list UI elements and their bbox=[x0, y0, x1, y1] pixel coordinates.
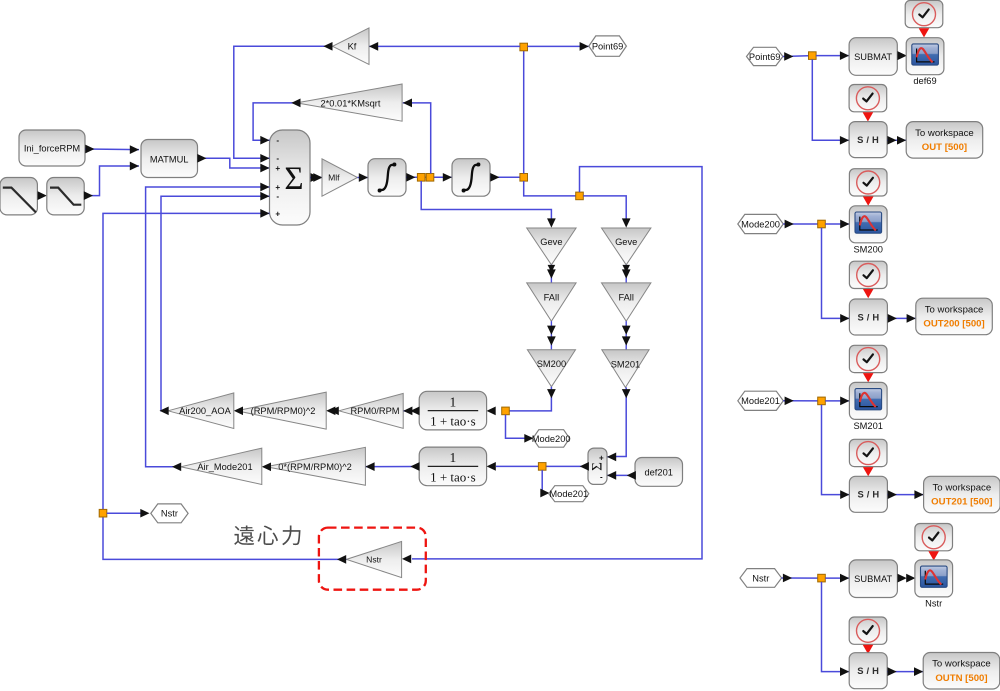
clock above scope SM200 bbox=[849, 169, 887, 196]
junction J3 bbox=[520, 174, 528, 182]
wire S/H to To workspace OUT201 [500] bbox=[887, 494, 923, 496]
svg-text:Σ: Σ bbox=[284, 161, 303, 197]
wire TF2 to 0*(RPM/RPM0)^2 gain bbox=[365, 466, 419, 468]
red arrow clock to S/H Point69 bbox=[863, 112, 874, 121]
wire Mode201 tag to junction bbox=[783, 400, 821, 402]
gain FAll column 1 bbox=[527, 283, 576, 321]
output tag Nstr bbox=[151, 504, 188, 523]
junction J7 bbox=[99, 509, 107, 517]
svg-text:OUT200 [500]: OUT200 [500] bbox=[923, 319, 984, 330]
transfer fn 2 bbox=[419, 447, 486, 486]
wire to Air200_AOA gain bbox=[234, 406, 243, 415]
wire FAll2 to SM bbox=[625, 321, 627, 350]
block def201 bbox=[635, 458, 683, 487]
clock above S/H Mode200 bbox=[849, 261, 887, 288]
input tag Mode201 bbox=[738, 391, 784, 410]
svg-text:Mode200: Mode200 bbox=[741, 219, 780, 229]
wire SM200 down to junction J5 and TF1 bbox=[506, 387, 552, 411]
junction Mode201 bbox=[818, 397, 826, 405]
svg-text:Point69: Point69 bbox=[749, 52, 781, 62]
clock above S/H Point69 bbox=[849, 85, 887, 112]
block MATMUL bbox=[141, 140, 198, 178]
red arrow clock to S/H Mode200 bbox=[863, 289, 874, 298]
svg-text:Nstr: Nstr bbox=[752, 573, 769, 583]
svg-text:1: 1 bbox=[450, 394, 457, 409]
svg-text:def201: def201 bbox=[644, 467, 672, 477]
gain Nstr centrifugal bbox=[346, 541, 401, 577]
svg-text:SUBMAT: SUBMAT bbox=[854, 574, 892, 584]
svg-text:0*(RPM/RPM0)^2: 0*(RPM/RPM0)^2 bbox=[278, 462, 352, 472]
svg-text:Geve: Geve bbox=[540, 237, 562, 247]
wire integrator1 to integrator2 through junctions bbox=[406, 176, 452, 178]
svg-text:-: - bbox=[276, 154, 279, 163]
svg-text:Nstr: Nstr bbox=[366, 555, 382, 565]
output tag Mode201 bbox=[549, 486, 589, 502]
scope def69 bbox=[906, 38, 944, 75]
wire KMsqrt output to sum input 1 bbox=[253, 103, 297, 140]
svg-text:S / H: S / H bbox=[857, 489, 879, 500]
svg-text:1 + tao·s: 1 + tao·s bbox=[430, 414, 476, 429]
svg-text:To workspace: To workspace bbox=[932, 659, 991, 670]
block S/H Point69 bbox=[849, 122, 887, 158]
wire J3 up to J2 bbox=[523, 47, 525, 174]
svg-text:FAll: FAll bbox=[544, 293, 560, 303]
svg-text:-: - bbox=[276, 192, 279, 201]
svg-text:To workspace: To workspace bbox=[925, 304, 984, 315]
svg-text:To workspace: To workspace bbox=[933, 483, 992, 494]
wire junction to SUBMAT bbox=[825, 577, 849, 579]
clock above S/H Mode201 bbox=[849, 439, 887, 466]
output tag Point69 bbox=[589, 36, 627, 56]
gain SM200 triangle bbox=[527, 350, 575, 387]
integrator 2 bbox=[452, 159, 490, 197]
gain Geve column 2 bbox=[602, 228, 651, 265]
wire junction down to S/H Point69 bbox=[812, 59, 849, 140]
wire TF1 to RPM0/RPM gain bbox=[403, 410, 419, 412]
svg-text:Nstr: Nstr bbox=[925, 598, 942, 608]
gain 2*0.01*KMsqrt bbox=[297, 84, 403, 121]
wire to Air_Mode201 gain bbox=[262, 462, 271, 471]
output tag Mode200 bbox=[533, 430, 570, 448]
wire SUBMAT to scope Nstr bbox=[898, 574, 907, 583]
gain (RPM/RPM0)^2 bbox=[237, 392, 327, 429]
junction Nstr bbox=[818, 574, 826, 582]
svg-text:SM201: SM201 bbox=[853, 421, 882, 431]
wire Point69 tag to junction bbox=[783, 55, 812, 58]
wire Mlf to integrator 1 bbox=[358, 177, 369, 179]
wire J4 up right to long feedback bbox=[412, 167, 702, 559]
transfer fn 1 bbox=[419, 391, 486, 430]
svg-text:1 + tao·s: 1 + tao·s bbox=[430, 469, 476, 484]
sum block Sigma bbox=[270, 130, 311, 225]
wire Nstr tag to junction bbox=[782, 577, 822, 579]
svg-text:Mode201: Mode201 bbox=[549, 489, 588, 499]
svg-text:Ini_forceRPM: Ini_forceRPM bbox=[24, 144, 80, 154]
wire junction down to S/H Mode201 bbox=[822, 405, 850, 495]
integrator 1 bbox=[368, 159, 406, 197]
gain Geve column 1 bbox=[527, 228, 576, 265]
svg-text:To workspace: To workspace bbox=[915, 128, 974, 139]
junction J5 bbox=[502, 407, 510, 415]
svg-text:OUT201 [500]: OUT201 [500] bbox=[931, 497, 992, 508]
wire Air_Mode201 output up to sum input 4 bbox=[146, 187, 270, 467]
svg-text:S / H: S / H bbox=[857, 311, 879, 322]
gain SM201 triangle bbox=[602, 350, 649, 388]
svg-text:OUTN [500]: OUTN [500] bbox=[935, 673, 987, 684]
junction J2 bbox=[520, 43, 528, 51]
block To workspace OUT [500] bbox=[906, 122, 983, 159]
block S/H Mode200 bbox=[849, 299, 887, 335]
block S/H Nstr bbox=[849, 653, 887, 689]
input tag Nstr bbox=[740, 569, 782, 588]
svg-text:MATMUL: MATMUL bbox=[150, 154, 189, 164]
wire J6 down to Mode201 tag bbox=[541, 470, 544, 493]
wire junction down to S/H Nstr bbox=[822, 582, 850, 672]
svg-text:(RPM/RPM0)^2: (RPM/RPM0)^2 bbox=[251, 406, 316, 416]
gain 0*(RPM/RPM0)^2 bbox=[266, 447, 365, 485]
junction J6 bbox=[538, 463, 546, 471]
wire J3 down to J4 bbox=[524, 181, 580, 196]
wire J2 right to Point69 out tag bbox=[528, 45, 589, 47]
wire ramp2 to MATMUL input 2 bbox=[84, 166, 139, 196]
red arrow clock to scope SM200 bbox=[863, 197, 874, 206]
clock above scope SM201 bbox=[849, 345, 887, 372]
wire J4 right down to Geve2 bbox=[583, 196, 626, 223]
svg-text:S / H: S / H bbox=[857, 134, 879, 145]
svg-text:2*0.01*KMsqrt: 2*0.01*KMsqrt bbox=[321, 98, 381, 108]
wire Air200_AOA output up to sum input 5 bbox=[161, 196, 270, 411]
svg-text:+: + bbox=[275, 210, 280, 219]
block To workspace OUT201 [500] bbox=[924, 476, 1000, 513]
gain Air200_AOA bbox=[168, 393, 234, 429]
svg-text:Point69: Point69 bbox=[592, 41, 624, 51]
wire def201 to small sum input 2 bbox=[607, 474, 635, 476]
svg-text:RPM0/RPM: RPM0/RPM bbox=[350, 406, 399, 416]
red dashed highlight box bbox=[319, 528, 426, 590]
junction A bbox=[417, 174, 425, 182]
red arrow clock to scope SM201 bbox=[863, 373, 874, 382]
svg-text:SM200: SM200 bbox=[537, 359, 566, 369]
gain RPM0/RPM bbox=[339, 393, 403, 428]
block SUBMAT Nstr bbox=[849, 560, 897, 598]
scope SM201 bbox=[849, 382, 887, 419]
wire RPM0/RPM to (RPM/RPM0)^2 gain bbox=[330, 406, 339, 415]
wire Kf output to sum input 2 bbox=[234, 46, 333, 158]
wire Ini_forceRPM to MATMUL bbox=[85, 148, 139, 151]
wire MATMUL to sum input 3 bbox=[198, 158, 270, 168]
input tag Mode200 bbox=[738, 214, 784, 233]
wire integrator2 to junction J3 bbox=[490, 176, 524, 178]
wire J2 left to Kf input bbox=[369, 45, 520, 47]
junction B bbox=[426, 174, 434, 182]
svg-text:SM200: SM200 bbox=[853, 244, 882, 254]
block To workspace OUTN [500] bbox=[923, 653, 1000, 690]
red arrow clock to S/H Nstr bbox=[863, 645, 874, 654]
svg-text:Geve: Geve bbox=[615, 237, 637, 247]
wire junctionA down to Geve1 bbox=[421, 181, 551, 223]
wire Geve1 to FAll1 bbox=[550, 265, 552, 283]
wire Nstr gain output to left and up to sum input 6 bbox=[103, 213, 346, 559]
wire SM201 down to small sum input 1 bbox=[607, 387, 626, 457]
svg-text:-: - bbox=[600, 473, 603, 482]
ramp block 1 bbox=[0, 178, 37, 215]
gain Kf bbox=[333, 28, 370, 65]
svg-text:Mode200: Mode200 bbox=[532, 434, 571, 444]
svg-text:Air200_AOA: Air200_AOA bbox=[179, 406, 231, 416]
input tag Point69 bbox=[747, 47, 783, 65]
scope SM200 bbox=[849, 206, 887, 243]
sum input port signs bbox=[275, 136, 280, 219]
sum output wire to Mlf gain bbox=[310, 177, 322, 179]
clock above scope def69 bbox=[905, 0, 943, 27]
svg-text:Kf: Kf bbox=[348, 42, 357, 52]
junction Mode200 bbox=[818, 220, 826, 228]
wire J7 to Nstr out tag bbox=[107, 512, 142, 514]
source block Ini_forceRPM bbox=[19, 130, 85, 166]
svg-text:FAll: FAll bbox=[618, 293, 634, 303]
wire ramp1 to ramp2 bbox=[38, 191, 47, 200]
svg-text:Nstr: Nstr bbox=[161, 509, 178, 519]
red arrow clock to scope Nstr bbox=[928, 551, 939, 560]
block SUBMAT Point69 bbox=[849, 38, 897, 76]
svg-text:Σ: Σ bbox=[590, 462, 606, 471]
gain FAll column 2 bbox=[602, 283, 651, 321]
svg-text:Mode201: Mode201 bbox=[741, 396, 780, 406]
wire junction to SUBMAT bbox=[816, 55, 849, 57]
svg-text:-: - bbox=[276, 136, 279, 145]
red arrow clock to scope def69 bbox=[919, 28, 930, 37]
red arrow clock to S/H Mode201 bbox=[863, 467, 874, 476]
small sum block rotated bbox=[588, 448, 607, 484]
wire junction down to S/H Mode200 bbox=[822, 228, 850, 319]
svg-text:+: + bbox=[599, 453, 604, 462]
svg-text:SM201: SM201 bbox=[611, 359, 640, 369]
wire Mode200 tag to junction bbox=[783, 223, 821, 225]
wire J5 down to Mode200 tag bbox=[506, 415, 527, 439]
wire junction to scope SM201 bbox=[825, 400, 849, 402]
block S/H Mode201 bbox=[849, 476, 887, 512]
svg-text:OUT [500]: OUT [500] bbox=[922, 142, 967, 153]
wire FAll1 to SM bbox=[550, 321, 552, 350]
wire junctionB up to KMsqrt gain input bbox=[403, 103, 431, 174]
svg-text:Mlf: Mlf bbox=[328, 173, 340, 183]
svg-text:1: 1 bbox=[450, 450, 457, 465]
clock above scope Nstr bbox=[915, 524, 953, 551]
svg-text:Air_Mode201: Air_Mode201 bbox=[197, 462, 252, 472]
gain Mlf bbox=[322, 159, 358, 196]
wire S/H to To workspace OUT [500] bbox=[887, 139, 906, 141]
svg-text:SUBMAT: SUBMAT bbox=[854, 52, 892, 62]
wire small sum output to junction J6 and TF2 input bbox=[496, 465, 588, 467]
junction Point69 bbox=[809, 52, 817, 60]
svg-text:+: + bbox=[275, 164, 280, 173]
scope Nstr bbox=[915, 560, 953, 597]
wire SUBMAT to scope def69 bbox=[897, 51, 906, 60]
ramp block 2 bbox=[47, 178, 84, 215]
junction J4 bbox=[576, 192, 584, 200]
text centrifugal force bbox=[234, 525, 300, 545]
wire S/H to To workspace OUT200 [500] bbox=[887, 317, 915, 319]
wire Geve2 to FAll2 bbox=[625, 265, 627, 283]
wire junction to scope SM200 bbox=[825, 223, 849, 225]
wire S/H to To workspace OUTN [500] bbox=[887, 671, 923, 673]
gain Air_Mode201 bbox=[181, 448, 262, 484]
svg-text:def69: def69 bbox=[913, 76, 936, 86]
svg-text:S / H: S / H bbox=[857, 665, 879, 676]
clock above S/H Nstr bbox=[849, 617, 887, 644]
block To workspace OUT200 [500] bbox=[916, 298, 993, 335]
